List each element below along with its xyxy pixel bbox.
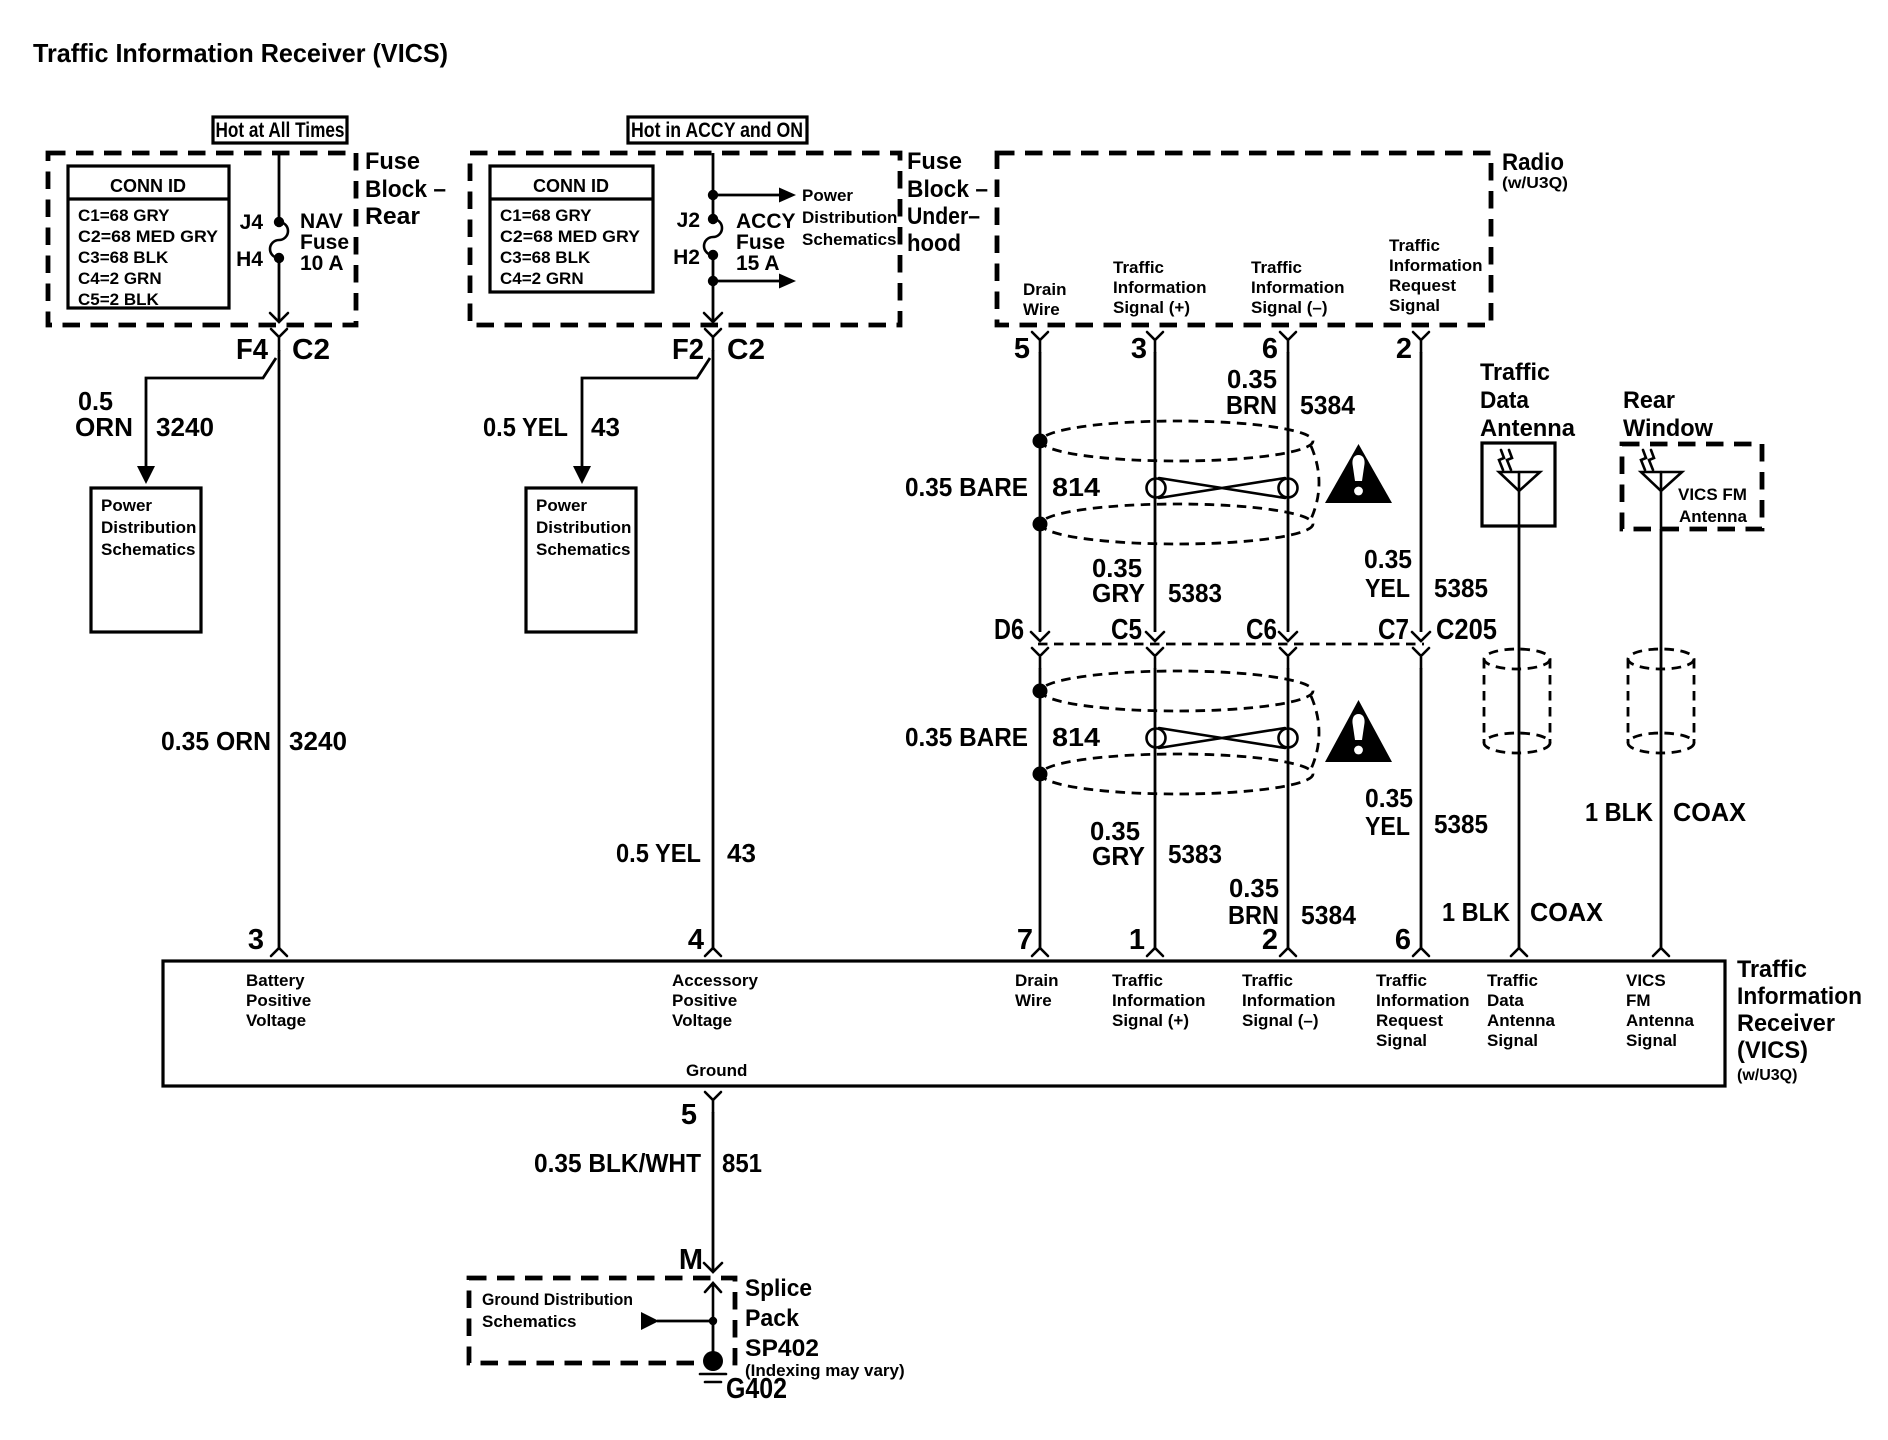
label: 0.5 ORN 3240 [75,386,214,442]
svg-text:(w/U3Q): (w/U3Q) [1502,175,1568,192]
fuse ACCY 15A [704,219,722,255]
label: Ground Distribution Schematics [482,1290,633,1331]
label: 0.35 BRN 5384 (lower) [1228,873,1357,930]
svg-text:Schematics: Schematics [482,1312,577,1331]
node: splice junction [709,1317,717,1325]
svg-text:Under–: Under– [907,203,980,230]
svg-text:C3=68 BLK: C3=68 BLK [500,248,591,267]
svg-text:D6: D6 [994,614,1024,646]
fuse block rear dashed box [48,153,356,325]
svg-text:Signal: Signal [1487,1031,1538,1050]
svg-text:M: M [679,1244,703,1276]
svg-text:Traffic: Traffic [1251,258,1302,277]
svg-text:Information: Information [1112,991,1206,1010]
svg-text:10 A: 10 A [300,252,344,275]
svg-text:C5=2 BLK: C5=2 BLK [78,290,159,309]
svg-text:Signal: Signal [1626,1031,1677,1050]
label: Hot at All Times [213,117,347,143]
connector fork into receiver (traffic data antenna) [1511,948,1527,956]
label: 0.35 GRY 5383 (lower) [1090,816,1222,871]
connector F4/C2 fork (female) [271,329,287,350]
label: traffic information request signal (receiver) [1376,971,1470,1050]
svg-text:2: 2 [1396,333,1412,365]
svg-text:0.5 YEL: 0.5 YEL [616,838,701,868]
svg-text:SP402: SP402 [745,1335,819,1362]
svg-text:C1=68 GRY: C1=68 GRY [500,206,592,225]
svg-text:Traffic: Traffic [1389,236,1440,255]
connector fork into receiver pin 2 [1280,948,1296,956]
wire: NAV fuse output [278,258,281,322]
svg-text:Fuse: Fuse [736,231,785,254]
connector fork into receiver pin 3 [271,948,287,956]
svg-text:0.35: 0.35 [1365,783,1413,813]
connector arrow entering splice pack (up) [705,1283,721,1321]
label: VICS FM antenna signal (receiver) [1626,971,1695,1050]
svg-text:J4: J4 [240,211,264,234]
svg-text:Traffic: Traffic [1242,971,1293,990]
svg-text:Schematics: Schematics [536,540,631,559]
svg-text:5385: 5385 [1434,809,1488,839]
svg-text:Traffic: Traffic [1487,971,1538,990]
twisted pair symbol 1 [1147,478,1298,498]
svg-text:4: 4 [688,924,704,956]
svg-text:C3=68 BLK: C3=68 BLK [78,248,169,267]
svg-text:0.35 ORN: 0.35 ORN [161,726,271,756]
svg-text:Antenna: Antenna [1626,1011,1695,1030]
svg-text:3240: 3240 [289,726,347,756]
svg-text:Schematics: Schematics [101,540,196,559]
svg-text:7: 7 [1017,924,1033,956]
svg-text:Signal: Signal [1376,1031,1427,1050]
svg-text:FM: FM [1626,991,1651,1010]
label: traffic information signal - (receiver) [1242,971,1336,1030]
svg-text:5384: 5384 [1301,900,1357,930]
svg-text:C5: C5 [1111,614,1142,646]
node H4 [236,248,284,271]
svg-text:5384: 5384 [1300,390,1356,420]
svg-text:5: 5 [1014,333,1030,365]
wire: accessory feed down to receiver pin 4 [712,350,715,950]
node: tap to power distribution (lower) [708,276,718,286]
connector fork into receiver (VICS FM antenna) [1653,948,1669,956]
wire: ACCY fuse output [712,255,715,322]
svg-text:Fuse: Fuse [907,148,962,175]
svg-text:0.35: 0.35 [1229,873,1279,903]
label: Fuse Block - Rear [365,148,446,230]
svg-text:Information: Information [1389,256,1483,275]
label: 0.5 YEL 43 (accessory wire) [616,838,756,868]
svg-text:COAX: COAX [1530,897,1604,927]
connector C205 dashed line [1038,643,1424,646]
svg-text:hood: hood [907,230,961,257]
svg-text:5385: 5385 [1434,573,1488,603]
label: 0.35 BRN 5384 (upper) [1226,364,1356,420]
fuse NAV 10A [270,222,288,258]
svg-text:Wire: Wire [1023,300,1060,319]
svg-text:C4=2 GRN: C4=2 GRN [500,269,584,288]
svg-text:6: 6 [1395,924,1411,956]
label: drain wire (receiver) [1015,971,1058,1010]
svg-text:Hot in ACCY and ON: Hot in ACCY and ON [631,119,803,142]
svg-text:851: 851 [722,1148,762,1178]
svg-text:Ground Distribution: Ground Distribution [482,1290,633,1309]
label: accessory positive voltage [672,971,759,1030]
connector arrow (male) into splice pack [704,1263,722,1272]
arrowhead power distribution (lower) [779,274,796,289]
label: ACCY Fuse 15 A [736,210,796,275]
connector C205 arrows (male) [1031,632,1430,641]
svg-text:H2: H2 [673,246,700,269]
wire: ground wire to splice pack [712,1112,715,1272]
svg-text:Voltage: Voltage [246,1011,306,1030]
svg-text:C1=68 GRY: C1=68 GRY [78,206,170,225]
label: Splice Pack SP402 (Indexing may vary) [745,1275,905,1380]
wire: drain wire lower segment [1039,668,1042,950]
twisted pair shield 1 (dashed) [1041,421,1319,544]
svg-text:3240: 3240 [156,412,214,442]
svg-text:43: 43 [727,838,756,868]
svg-text:ORN: ORN [75,412,133,442]
svg-text:Hot at All Times: Hot at All Times [216,119,345,142]
wire: splice to ground [712,1321,715,1360]
power distribution schematics box (left) [91,488,201,632]
svg-text:1: 1 [1129,924,1145,956]
connector fork into receiver pin 7 [1032,948,1048,956]
label: VICS FM Antenna [1678,485,1748,526]
connector fork radio pin 2 [1413,332,1429,352]
svg-text:Ground: Ground [686,1061,747,1080]
svg-text:6: 6 [1262,333,1278,365]
label: 0.35 GRY 5383 (upper) [1092,553,1222,608]
connector fork radio pin 5 [1032,332,1048,352]
svg-text:Radio: Radio [1502,149,1564,176]
svg-text:0.35 BARE: 0.35 BARE [905,722,1028,752]
wire: drain wire upper segment [1039,352,1042,632]
antenna symbol (traffic data antenna) [1499,450,1540,528]
label: 0.35 BARE 814 (upper) [905,472,1101,502]
CONN ID table (fuse block underhood) [490,166,653,292]
inline connector (VICS FM antenna coax) [1628,649,1694,753]
svg-text:ACCY: ACCY [736,210,796,233]
connector fork into receiver pin 1 [1147,948,1163,956]
svg-text:5: 5 [681,1099,697,1131]
svg-text:5383: 5383 [1168,578,1222,608]
label: 0.35 BARE 814 (lower) [905,722,1101,752]
wire: battery feed down to receiver pin 3 [278,350,281,950]
connector fork radio pin 3 [1147,332,1163,352]
antenna symbol (VICS FM antenna) [1641,450,1682,529]
svg-text:C2: C2 [727,334,765,366]
svg-text:Fuse: Fuse [300,231,349,254]
svg-text:Traffic: Traffic [1480,359,1550,386]
fuse block underhood dashed box [470,153,900,325]
label: power distribution schematics (underhood) [802,186,897,249]
traffic data antenna box [1482,443,1555,526]
traffic information receiver (VICS) box [163,961,1725,1086]
svg-text:1 BLK: 1 BLK [1442,897,1510,927]
svg-text:C4=2 GRN: C4=2 GRN [78,269,162,288]
power distribution schematics box (middle) [526,488,636,632]
svg-text:Drain: Drain [1015,971,1058,990]
svg-text:Traffic: Traffic [1113,258,1164,277]
svg-text:814: 814 [1052,472,1101,502]
svg-text:BRN: BRN [1226,390,1277,420]
label: traffic information signal + (receiver) [1112,971,1206,1030]
wire: TIS+ lower segment [1154,668,1157,950]
connector fork into receiver pin 4 [705,948,721,956]
svg-text:Power: Power [101,496,152,515]
svg-text:Block –: Block – [907,176,988,203]
svg-text:Voltage: Voltage [672,1011,732,1030]
wire: tap to power distribution arrow (lower) [713,280,780,283]
svg-text:CONN ID: CONN ID [533,176,609,196]
svg-text:2: 2 [1262,924,1278,956]
svg-text:Fuse: Fuse [365,148,420,175]
node: drain shield junction 1a [1033,434,1048,449]
svg-text:YEL: YEL [1365,573,1410,603]
wire: traffic data antenna coax [1518,528,1521,950]
svg-text:3: 3 [1131,333,1147,365]
label: traffic information request signal (radio) [1389,236,1483,315]
svg-text:Power: Power [536,496,587,515]
wire: TIRS upper segment [1420,352,1423,632]
node J4 [240,211,285,234]
svg-text:Rear: Rear [365,203,420,230]
node: tap to power distribution (upper) [708,190,718,200]
inline connector (traffic data antenna coax) [1484,649,1550,753]
wire: hot feed into NAV fuse [278,153,281,222]
svg-text:Information: Information [1376,991,1470,1010]
svg-text:Receiver: Receiver [1737,1010,1835,1037]
svg-text:J2: J2 [677,209,700,232]
rear window dashed box [1622,444,1762,529]
wire: splice pack internal tap [657,1320,713,1323]
label: 0.35 YEL 5385 (upper) [1364,544,1488,603]
svg-text:0.35 BARE: 0.35 BARE [905,472,1028,502]
svg-text:Signal (–): Signal (–) [1251,298,1328,317]
svg-text:C6: C6 [1246,614,1277,646]
svg-text:0.5 YEL: 0.5 YEL [483,412,568,442]
svg-text:Request: Request [1389,276,1456,295]
svg-text:1 BLK: 1 BLK [1585,797,1653,827]
svg-text:Antenna: Antenna [1487,1011,1556,1030]
label: 0.35 YEL 5385 (lower) [1365,783,1488,841]
warning triangle 2 [1325,700,1392,762]
svg-text:(VICS): (VICS) [1737,1037,1808,1064]
svg-text:Rear: Rear [1623,387,1675,414]
connector arrow (male) at fuse block exit [270,313,288,322]
node: drain shield junction 2a [1033,684,1048,699]
wire: TIS- upper segment [1287,352,1290,632]
svg-text:Signal (+): Signal (+) [1113,298,1190,317]
svg-text:GRY: GRY [1092,578,1145,608]
svg-text:(w/U3Q): (w/U3Q) [1737,1067,1797,1084]
svg-text:Traffic Information Receiver (: Traffic Information Receiver (VICS) [33,38,448,68]
svg-text:Traffic: Traffic [1112,971,1163,990]
svg-text:Information: Information [1242,991,1336,1010]
label: Hot in ACCY and ON [628,117,807,143]
connector fork from receiver pin 5 [705,1092,721,1112]
svg-text:Battery: Battery [246,971,305,990]
label: 1 BLK COAX (traffic data antenna) [1442,897,1604,927]
svg-text:Signal (+): Signal (+) [1112,1011,1189,1030]
svg-text:Positive: Positive [246,991,311,1010]
node J2 [677,209,719,232]
svg-text:C7: C7 [1378,614,1409,646]
connector fork into receiver pin 6 [1413,948,1429,956]
svg-text:NAV: NAV [300,210,343,233]
svg-text:3: 3 [248,924,264,956]
warning triangle 1 [1325,444,1392,503]
svg-text:Antenna: Antenna [1480,415,1576,442]
node: drain shield junction 1b [1033,517,1048,532]
label: Rear Window [1623,387,1713,442]
label: 0.5 YEL 43 (branch) [483,412,620,442]
twisted pair symbol 2 [1147,728,1298,748]
svg-text:15 A: 15 A [736,252,780,275]
svg-text:VICS: VICS [1626,971,1666,990]
twisted pair shield 2 (dashed) [1041,671,1319,794]
splice pack dashed box [469,1278,735,1363]
wire: TIRS lower segment [1420,668,1423,950]
svg-text:Positive: Positive [672,991,737,1010]
wire: tap to power distribution arrow (upper) [713,194,780,197]
svg-text:Drain: Drain [1023,280,1066,299]
svg-text:Distribution: Distribution [802,208,897,227]
svg-text:Wire: Wire [1015,991,1052,1010]
svg-text:Pack: Pack [745,1305,800,1332]
svg-text:Information: Information [1251,278,1345,297]
label: Traffic Data Antenna [1480,359,1576,442]
arrowhead to power distribution box (left) [137,466,155,484]
svg-text:0.35 BLK/WHT: 0.35 BLK/WHT [534,1148,701,1178]
svg-text:F4: F4 [236,334,268,366]
svg-text:Antenna: Antenna [1679,507,1748,526]
connector fork radio pin 6 [1280,332,1296,352]
svg-text:Splice: Splice [745,1275,812,1302]
wire: TIS- lower segment [1287,668,1290,950]
label: 0.35 BLK/WHT 851 [534,1148,762,1178]
wire: hot feed into ACCY fuse [712,153,715,219]
svg-text:CONN ID: CONN ID [110,176,186,196]
node H2 [673,246,718,269]
svg-text:Information: Information [1113,278,1207,297]
connector C205 labels [994,614,1497,646]
label: Radio (w/U3Q) [1502,149,1568,192]
arrowhead (ground distribution reference) [641,1312,659,1330]
connector C205 forks (female) [1032,648,1429,668]
CONN ID table (fuse block rear) [68,166,229,309]
wire: branch to power distribution (middle) [582,358,710,468]
svg-text:Traffic: Traffic [1737,956,1807,983]
wire: TIS+ upper segment [1154,352,1157,632]
arrowhead to power distribution box (middle) [573,466,591,484]
svg-text:F2: F2 [672,334,704,366]
svg-text:Request: Request [1376,1011,1443,1030]
svg-text:VICS FM: VICS FM [1678,485,1747,504]
label: drain wire (radio) [1023,280,1066,319]
svg-text:C2: C2 [292,334,330,366]
svg-text:43: 43 [591,412,620,442]
node: drain shield junction 2b [1033,767,1048,782]
label: battery positive voltage [246,971,311,1030]
connector F2/C2 fork (female) [705,329,721,350]
svg-text:Window: Window [1623,415,1713,442]
svg-text:Distribution: Distribution [101,518,196,537]
svg-text:COAX: COAX [1673,797,1747,827]
svg-text:5383: 5383 [1168,839,1222,869]
svg-text:Block –: Block – [365,176,446,203]
svg-text:0.35: 0.35 [1364,544,1412,574]
label: 1 BLK COAX (rear window) [1585,797,1747,827]
label: Fuse Block - Underhood [907,148,988,257]
svg-text:C2=68 MED GRY: C2=68 MED GRY [78,227,219,246]
svg-text:Distribution: Distribution [536,518,631,537]
svg-text:GRY: GRY [1092,841,1145,871]
svg-text:Power: Power [802,186,853,205]
svg-text:Schematics: Schematics [802,230,897,249]
svg-text:Traffic: Traffic [1376,971,1427,990]
radio dashed box [997,153,1491,325]
label: Traffic Information Receiver (VICS) (w/U3Q) [1737,956,1862,1084]
svg-text:Signal (–): Signal (–) [1242,1011,1319,1030]
ground G402 [700,1351,726,1382]
svg-text:814: 814 [1052,722,1101,752]
label: traffic information signal + (radio) [1113,258,1207,317]
svg-text:C2=68 MED GRY: C2=68 MED GRY [500,227,641,246]
svg-text:G402: G402 [726,1373,787,1405]
label: 0.35 ORN 3240 (battery wire) [161,726,347,756]
wire: VICS FM antenna coax [1660,529,1663,950]
svg-text:YEL: YEL [1365,811,1410,841]
label: NAV Fuse 10 A [300,210,349,275]
label: traffic information signal - (radio) [1251,258,1345,317]
svg-text:Information: Information [1737,983,1862,1010]
svg-text:Data: Data [1487,991,1524,1010]
label: traffic data antenna signal (receiver) [1487,971,1556,1050]
svg-text:Accessory: Accessory [672,971,759,990]
svg-text:Signal: Signal [1389,296,1440,315]
svg-text:H4: H4 [236,248,263,271]
svg-text:Data: Data [1480,387,1530,414]
wire: branch to power distribution (left) [146,358,276,468]
svg-text:C205: C205 [1436,614,1497,646]
arrowhead power distribution (upper) [779,188,796,203]
connector arrow (male) at underhood fuse block exit [704,313,722,322]
